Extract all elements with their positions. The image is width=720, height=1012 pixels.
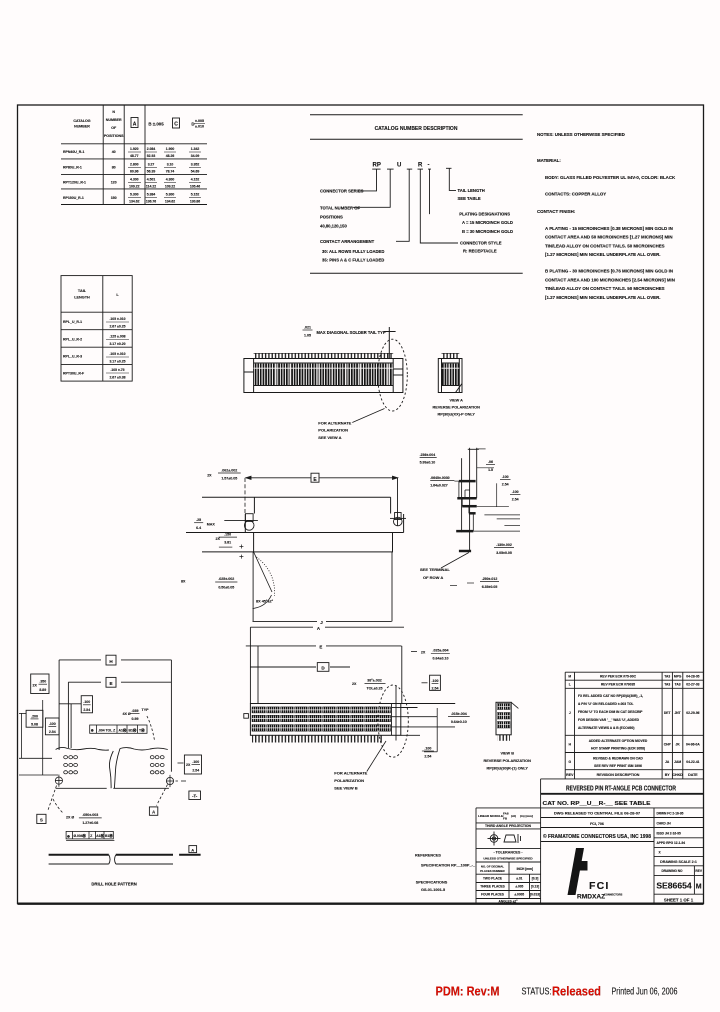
svg-text:0.50±0.05: 0.50±0.05	[218, 585, 234, 589]
dim lines above	[246, 627, 404, 703]
svg-text:[1.27 MICRONS] MIN NICKEL UNDE: [1.27 MICRONS] MIN NICKEL UNDERPLATE ALL…	[545, 295, 660, 300]
svg-text:SEE VIEW A: SEE VIEW A	[318, 435, 341, 440]
svg-text:2X: 2X	[215, 537, 220, 541]
svg-text:2.54: 2.54	[424, 754, 431, 758]
vertical extension lines	[59, 660, 171, 772]
svg-text:CONTACT AREA AND 50 MICROINCHE: CONTACT AREA AND 50 MICROINCHES [1.27 MI…	[545, 235, 673, 240]
svg-text:RP(30)U(30)R-(1) ONLY: RP(30)U(30)R-(1) ONLY	[486, 767, 528, 771]
svg-text:VIEW A: VIEW A	[450, 398, 464, 402]
svg-text:M: M	[696, 884, 702, 891]
svg-text:Printed Jun 06, 2006: Printed Jun 06, 2006	[612, 987, 678, 998]
svg-text:LENGTH: LENGTH	[74, 296, 90, 300]
svg-text:8X 45°±2°: 8X 45°±2°	[256, 600, 274, 604]
svg-text:40,80,120,150: 40,80,120,150	[320, 223, 347, 228]
svg-text:JK: JK	[675, 743, 680, 747]
svg-text:CHKD: CHKD	[672, 773, 683, 777]
svg-text:±.005: ±.005	[195, 119, 204, 123]
border frame	[18, 105, 704, 904]
svg-text:.236±.004: .236±.004	[420, 453, 436, 457]
svg-text:4.300: 4.300	[130, 178, 139, 182]
body outline	[186, 497, 404, 552]
svg-text:38°±.032: 38°±.032	[367, 679, 381, 683]
svg-text:1.5: 1.5	[488, 468, 493, 472]
svg-text:.039: .039	[132, 709, 139, 713]
svg-text:J: J	[569, 711, 571, 715]
view: recommended pcb layout	[19, 655, 202, 840]
datum target left	[55, 775, 62, 787]
svg-text:[1.27 MICRONS] MIN NICKEL UNDE: [1.27 MICRONS] MIN NICKEL UNDERPLATE ALL…	[545, 252, 660, 257]
svg-text:SEE REV REF PRINT ISM 1996: SEE REV REF PRINT ISM 1996	[594, 764, 642, 768]
labels left	[320, 188, 384, 262]
svg-text:FOR ALTERNATE: FOR ALTERNATE	[318, 420, 351, 425]
svg-text:NO. OF DECIMAL: NO. OF DECIMAL	[481, 864, 504, 868]
svg-text:2.084: 2.084	[147, 147, 156, 151]
diagram: catalog number description	[310, 115, 523, 274]
svg-text:[0.013]: [0.013]	[530, 893, 540, 897]
svg-text:ALTERNATE VIEWS A & B (ECO: ALTERNATE VIEWS A & B (ECO#50)	[578, 726, 634, 730]
svg-text:E: E	[109, 681, 112, 686]
dim label 2X post dia	[207, 468, 237, 480]
svg-text:RP: RP	[373, 163, 381, 169]
svg-text:TA3: TA3	[664, 683, 670, 687]
svg-text:A: A	[191, 847, 194, 852]
svg-text:FX REL ADDED CAT NO RP(30)U(30: FX REL ADDED CAT NO RP(30)U(30R)_-1,	[578, 694, 643, 698]
leader SEE TERMINAL	[441, 553, 469, 569]
chamfer leader and angle	[253, 552, 275, 609]
svg-text:CONNECTOR STYLE: CONNECTOR STYLE	[460, 240, 502, 245]
view B label	[483, 752, 531, 771]
svg-text:0.99: 0.99	[132, 717, 139, 721]
svg-text:S: S	[40, 818, 43, 823]
svg-text:40: 40	[112, 150, 116, 154]
svg-text:3.10: 3.10	[167, 163, 174, 167]
svg-text:JA: JA	[665, 760, 670, 764]
.100 lower right	[424, 708, 437, 752]
svg-text:⊕: ⊕	[67, 834, 70, 838]
svg-text:ISSD JH 2-16-95: ISSD JH 2-16-95	[657, 831, 681, 835]
svg-text:1.900: 1.900	[166, 147, 175, 151]
svg-text:FCI: FCI	[589, 880, 610, 892]
svg-text:RP150U_R-1: RP150U_R-1	[63, 196, 84, 200]
title block	[415, 672, 703, 903]
svg-text:THIRD ANGLE PROJECTION: THIRD ANGLE PROJECTION	[485, 824, 532, 828]
table: tail length table	[61, 276, 132, 382]
svg-text:SHEET 1 OF 1: SHEET 1 OF 1	[664, 897, 694, 902]
svg-text:R: R	[418, 163, 423, 169]
svg-text:TAIL LENGTH: TAIL LENGTH	[458, 188, 485, 193]
tail fringe below	[252, 735, 383, 742]
view: connector front view with dimensions	[181, 468, 406, 625]
svg-text:.105 ±.010: .105 ±.010	[109, 317, 125, 321]
svg-text:4.152: 4.152	[191, 178, 200, 182]
svg-text:TYP: TYP	[142, 708, 150, 712]
svg-text:1.27±0.08: 1.27±0.08	[82, 821, 98, 825]
right side ext lines	[401, 704, 455, 736]
svg-text:.100: .100	[83, 700, 90, 704]
svg-text:.250±.012: .250±.012	[482, 577, 498, 581]
svg-text:30: ALL ROWS FULLY LOADED: 30: ALL ROWS FULLY LOADED	[322, 249, 384, 254]
svg-text:RP(30)U(XX)-P ONLY: RP(30)U(XX)-P ONLY	[438, 413, 476, 417]
svg-text:105.46: 105.46	[190, 185, 200, 189]
svg-text:U: U	[397, 163, 401, 169]
svg-text:N: N	[112, 110, 115, 114]
svg-text:6.35±0.05: 6.35±0.05	[482, 585, 498, 589]
pcb bottom line	[56, 787, 169, 789]
svg-text:CONNECTOR SERIES: CONNECTOR SERIES	[320, 188, 364, 193]
svg-text:HOT STAMP PRINTING (ECR 3058): HOT STAMP PRINTING (ECR 3058)	[591, 747, 645, 751]
svg-text:B ±.005: B ±.005	[148, 122, 164, 127]
svg-text:CONNECTORS: CONNECTORS	[604, 893, 623, 897]
small cross ticks	[239, 545, 243, 559]
svg-text:134.62: 134.62	[129, 200, 139, 204]
svg-text:LINEAR MODULE:: LINEAR MODULE:	[478, 814, 504, 818]
svg-text:C: C	[174, 122, 178, 128]
svg-text:.350: .350	[39, 679, 46, 683]
svg-text:8.89: 8.89	[39, 688, 46, 692]
svg-text:A = 15 MICROINCH GOLD: A = 15 MICROINCH GOLD	[462, 220, 513, 225]
svg-text:PDM: Rev:M: PDM: Rev:M	[436, 984, 500, 999]
svg-text:CONTACT ARRANGEMENT: CONTACT ARRANGEMENT	[320, 239, 375, 244]
svg-text:FCI, 706: FCI, 706	[590, 822, 604, 826]
table: catalog dimension table	[61, 105, 207, 205]
center column	[541, 808, 654, 904]
svg-text:2.54: 2.54	[432, 686, 439, 690]
boxed 2X .350	[31, 674, 49, 694]
datum target right	[166, 775, 186, 787]
svg-text:MAX DIAGONAL SOLDER TAIL TYP: MAX DIAGONAL SOLDER TAIL TYP	[317, 330, 386, 335]
svg-text:MATERIAL:: MATERIAL:	[537, 158, 561, 163]
right boxed 2X .100	[178, 762, 184, 764]
svg-text:POLARIZATION: POLARIZATION	[334, 778, 364, 783]
svg-text:5.99±0.10: 5.99±0.10	[420, 461, 436, 465]
svg-text:CATALOG NUMBER DESCRIPTION: CATALOG NUMBER DESCRIPTION	[375, 126, 458, 132]
svg-text:.100: .100	[502, 475, 509, 479]
left boxed dims	[26, 710, 43, 727]
svg-text:SEE TERMINAL: SEE TERMINAL	[420, 567, 450, 572]
svg-text:109.22: 109.22	[129, 185, 139, 189]
svg-text:.105 ±.75: .105 ±.75	[110, 368, 124, 372]
pcb wavy top edge	[56, 747, 168, 788]
polarization post right	[390, 478, 406, 526]
svg-text:REVISION DESCRIPTION: REVISION DESCRIPTION	[597, 773, 640, 777]
svg-text:SPECIFICATION RP__100P_-_: SPECIFICATION RP__100P_-_	[421, 863, 476, 867]
dim E line	[246, 473, 398, 482]
dashed ellipse	[378, 685, 408, 757]
svg-text:DWG RELEASED TO CENTRAL FILE 0: DWG RELEASED TO CENTRAL FILE 06-28-07	[554, 811, 641, 816]
svg-text:120: 120	[111, 181, 117, 185]
notes text block	[537, 132, 676, 300]
svg-text:REVERSE POLARIZATION: REVERSE POLARIZATION	[432, 406, 480, 410]
svg-text:114.22: 114.22	[146, 185, 156, 189]
dashed centerline to post	[244, 478, 246, 514]
svg-text:5.08: 5.08	[31, 722, 38, 726]
pin tick fringe on top	[254, 353, 394, 359]
svg-text:REV PER ECR #75-90C: REV PER ECR #75-90C	[600, 675, 637, 679]
svg-text:1.64±0.027: 1.64±0.027	[430, 484, 448, 488]
view B small body	[496, 702, 511, 735]
svg-text:2.54: 2.54	[192, 768, 199, 772]
datum box A	[149, 807, 157, 815]
svg-text:[0.3]: [0.3]	[532, 877, 539, 881]
svg-text:© FRAMATOME CONNECTORS USA, IN: © FRAMATOME CONNECTORS USA, INC 1998	[543, 833, 651, 840]
svg-text:4.501: 4.501	[147, 178, 156, 182]
svg-text:CHP: CHP	[664, 743, 672, 747]
view A small body	[438, 359, 462, 393]
svg-text:TIN/LEAD ALLOY ON CONTACT TAIL: TIN/LEAD ALLOY ON CONTACT TAILS. 50 MICR…	[545, 243, 665, 248]
svg-text:150: 150	[111, 196, 117, 200]
svg-text:2X: 2X	[352, 682, 357, 686]
view: connector top view	[244, 326, 480, 440]
svg-text:04-96-0A: 04-96-0A	[686, 743, 700, 747]
svg-text:±.005: ±.005	[515, 885, 523, 889]
svg-text:.025±.002: .025±.002	[218, 577, 234, 581]
references text	[415, 854, 476, 892]
drill holes left group	[64, 756, 78, 774]
svg-text:[0.13]: [0.13]	[531, 885, 539, 889]
svg-text:2X Ø: 2X Ø	[66, 815, 74, 819]
svg-text:56.39: 56.39	[147, 170, 156, 174]
svg-text:3.17 ±0.20: 3.17 ±0.20	[109, 342, 125, 346]
dim H line	[59, 659, 171, 661]
svg-text:02-29-96: 02-29-96	[686, 711, 699, 715]
svg-text:DRILL HOLE PATTERN: DRILL HOLE PATTERN	[91, 882, 136, 887]
svg-text:.100: .100	[192, 760, 199, 764]
svg-text:-T-: -T-	[192, 794, 198, 799]
svg-text:B1Ⓜ: B1Ⓜ	[105, 833, 113, 838]
svg-text:TOTAL NUMBER OF: TOTAL NUMBER OF	[320, 206, 360, 211]
svg-text:.025±.004: .025±.004	[433, 649, 449, 653]
svg-text:(in) [mm]: (in) [mm]	[520, 814, 533, 818]
svg-text:DATE: DATE	[688, 773, 698, 777]
svg-text:FROM 'U' TO EACH DIM IN CAT DE: FROM 'U' TO EACH DIM IN CAT DESCRIP	[578, 710, 643, 714]
svg-text:A1Ⓜ: A1Ⓜ	[96, 833, 104, 838]
svg-text:5.384: 5.384	[147, 193, 156, 197]
svg-text:B = 30 MICROINCH GOLD: B = 30 MICROINCH GOLD	[462, 229, 513, 234]
projection symbol	[488, 832, 521, 846]
revision table grid	[565, 672, 703, 779]
svg-text:2.67 ±0.25: 2.67 ±0.25	[109, 325, 125, 329]
svg-text:.125 ±.008: .125 ±.008	[109, 335, 125, 339]
datum box T	[189, 791, 201, 800]
gdt frame bottom	[66, 831, 113, 839]
zigzag steps	[459, 481, 473, 531]
svg-text:APPD RPG 12-1-94: APPD RPG 12-1-94	[657, 841, 686, 845]
svg-text:CHKD JH: CHKD JH	[657, 821, 672, 825]
boxed .100	[422, 682, 428, 684]
view: connector bottom view	[244, 626, 531, 791]
alternate polarization label	[334, 770, 367, 790]
dim leader to tail	[384, 327, 396, 359]
svg-text:RP80U_R-1: RP80U_R-1	[63, 166, 82, 170]
datum box S	[37, 814, 46, 823]
alternate polarization label	[318, 420, 351, 439]
svg-text:134.62: 134.62	[165, 200, 175, 204]
svg-text:GS-01-1001-5: GS-01-1001-5	[421, 888, 445, 892]
labels right	[458, 188, 514, 253]
svg-text:2.67 ±0.38: 2.67 ±0.38	[109, 376, 125, 380]
svg-text:RPL_U_R-1: RPL_U_R-1	[63, 320, 82, 324]
svg-text:±.0005: ±.0005	[514, 893, 524, 897]
svg-text:Ø.004Ⓜ: Ø.004Ⓜ	[74, 833, 87, 838]
svg-text:TIN/LEAD ALLOY ON CONTACT TAIL: TIN/LEAD ALLOY ON CONTACT TAILS. 50 MICR…	[545, 286, 665, 291]
dashed leaders to datum boxes	[48, 785, 168, 814]
svg-text:.062±.002: .062±.002	[221, 468, 237, 472]
svg-text:RPN40U_R-1: RPN40U_R-1	[63, 150, 84, 154]
svg-text:J: J	[320, 620, 323, 625]
svg-text:80: 80	[112, 166, 116, 170]
svg-text:.015±.004: .015±.004	[451, 712, 467, 716]
svg-text:R: RECEPTACLE: R: RECEPTACLE	[463, 248, 497, 253]
svg-text:NUMBER: NUMBER	[74, 125, 90, 129]
svg-text:DET: DET	[664, 711, 671, 715]
svg-text:⊕: ⊕	[91, 729, 94, 733]
svg-text:CAT NO. RP__U__R-__ SEE TABLE: CAT NO. RP__U__R-__ SEE TABLE	[543, 801, 651, 807]
svg-text:L: L	[569, 683, 571, 687]
contact strips	[252, 707, 391, 731]
FCI logo	[568, 848, 588, 895]
svg-text:NOTES: UNLESS OTHERWISE SPECIF: NOTES: UNLESS OTHERWISE SPECIFIED	[537, 132, 625, 137]
svg-text:POLARIZATION: POLARIZATION	[318, 428, 348, 433]
svg-text:3.05±0.05: 3.05±0.05	[496, 551, 512, 555]
svg-text:34.09: 34.09	[191, 154, 200, 158]
svg-text:UNLESS OTHERWISE SPECIFIED: UNLESS OTHERWISE SPECIFIED	[483, 856, 533, 860]
svg-text:MPG: MPG	[674, 675, 682, 679]
svg-text:PLATING DESIGNATIONS: PLATING DESIGNATIONS	[459, 212, 510, 217]
svg-text:CATALOG: CATALOG	[73, 119, 90, 123]
svg-text:DRWN FC 2-16-95: DRWN FC 2-16-95	[657, 812, 684, 816]
svg-text:60.96: 60.96	[130, 170, 139, 174]
svg-text:RPL_U_R-2: RPL_U_R-2	[63, 338, 82, 342]
svg-text:109.22: 109.22	[165, 185, 175, 189]
part number tokens	[373, 163, 430, 169]
svg-text:STATUS:: STATUS:	[522, 987, 552, 998]
svg-text:PLACES NUMBER: PLACES NUMBER	[480, 869, 504, 873]
svg-text:MAX: MAX	[207, 522, 216, 526]
svg-text:JNT: JNT	[674, 711, 680, 715]
svg-text:NUMBER: NUMBER	[106, 118, 122, 122]
svg-text:TA3: TA3	[664, 675, 670, 679]
svg-text:±.01: ±.01	[516, 877, 522, 881]
svg-text:5.300: 5.300	[130, 193, 139, 197]
svg-text:TWO PLACE: TWO PLACE	[483, 877, 502, 881]
svg-text:& P/N 'U' ON RELOADED ±.003 TO: & P/N 'U' ON RELOADED ±.003 TOL	[578, 702, 634, 706]
svg-text:0.64±0.10: 0.64±0.10	[451, 720, 467, 724]
right side dims	[450, 449, 520, 586]
svg-text:.200: .200	[31, 714, 38, 718]
svg-text:78.74: 78.74	[166, 170, 175, 174]
svg-text:ANGLES ±2°: ANGLES ±2°	[499, 900, 519, 904]
svg-text:.105 ±.010: .105 ±.010	[109, 352, 125, 356]
svg-text:1.57±0.05: 1.57±0.05	[221, 477, 237, 481]
svg-text:TAIL: TAIL	[78, 289, 87, 293]
svg-text:1.05: 1.05	[304, 333, 311, 337]
svg-text:8X: 8X	[181, 580, 186, 584]
svg-text:52.93: 52.93	[147, 154, 156, 158]
svg-text:FOUR PLACES: FOUR PLACES	[481, 893, 504, 897]
svg-text:FA8: FA8	[503, 812, 509, 816]
svg-text:FOR DESIGN VAR '__' WAS 'U', A: FOR DESIGN VAR '__' WAS 'U', ADDED	[578, 718, 640, 722]
svg-text:.100: .100	[512, 490, 519, 494]
boxed .100 top	[81, 696, 92, 713]
svg-text:OF ROW A: OF ROW A	[423, 575, 443, 580]
svg-text:1.342: 1.342	[191, 147, 200, 151]
gdt frame top	[90, 725, 147, 733]
centerlines	[462, 448, 479, 551]
dashed polarization ellipse	[378, 339, 408, 411]
svg-text:5.152: 5.152	[191, 193, 200, 197]
svg-text:0.64±0.10: 0.64±0.10	[433, 657, 449, 661]
svg-text:2.800: 2.800	[130, 163, 139, 167]
svg-text:JAM: JAM	[674, 760, 681, 764]
svg-text:RPT120U_R-1: RPT120U_R-1	[63, 181, 86, 185]
svg-text:2.54: 2.54	[512, 498, 519, 502]
body	[250, 704, 400, 736]
svg-text:.06: .06	[488, 460, 493, 464]
body outline	[244, 359, 403, 393]
svg-text:.050±.003: .050±.003	[82, 813, 98, 817]
svg-text:.150: .150	[224, 532, 231, 536]
svg-text:04-22-41: 04-22-41	[686, 760, 699, 764]
svg-text:G: G	[569, 760, 572, 764]
svg-text:2X: 2X	[186, 763, 191, 767]
svg-text:5.300: 5.300	[166, 193, 175, 197]
svg-text:POSITIONS: POSITIONS	[104, 134, 124, 138]
svg-text:SEE TABLE: SEE TABLE	[458, 196, 481, 201]
svg-text:2X: 2X	[33, 683, 38, 687]
drill holes right group	[150, 756, 164, 774]
svg-text:3.352: 3.352	[191, 163, 200, 167]
svg-text:INCH [mm]: INCH [mm]	[517, 867, 533, 871]
title bar	[541, 779, 703, 904]
svg-text:CONTACT AREA AND 100 MICROINCH: CONTACT AREA AND 100 MICROINCHES [2.54 M…	[545, 277, 675, 282]
svg-text:REVERSED PIN RT-ANGLE PCB CONN: REVERSED PIN RT-ANGLE PCB CONNECTOR	[566, 786, 676, 793]
svg-text:REV: REV	[695, 869, 702, 873]
svg-text:Z: Z	[90, 834, 92, 838]
2X tail dim label	[411, 651, 417, 653]
svg-text:4X Ø: 4X Ø	[123, 712, 131, 716]
svg-text:02-27-03: 02-27-03	[686, 683, 699, 687]
contact hatch area	[254, 364, 394, 385]
tolerance block	[476, 808, 541, 904]
view: drill hole pattern	[49, 846, 201, 887]
svg-text:.100: .100	[424, 746, 431, 750]
svg-text:DRAWING NO: DRAWING NO	[661, 869, 683, 873]
svg-text:B PLATING - 30 MICROINCHES [0.: B PLATING - 30 MICROINCHES [0.76 MICRONS…	[545, 269, 673, 274]
view A label	[432, 398, 480, 416]
svg-text:2.54: 2.54	[502, 483, 509, 487]
svg-text:.130±.002: .130±.002	[496, 543, 512, 547]
svg-text:REVERSE POLARIZATION: REVERSE POLARIZATION	[483, 759, 531, 763]
svg-text:.021: .021	[304, 326, 311, 330]
svg-text:2.54: 2.54	[83, 708, 90, 712]
svg-text:35: PINS A & C FULLY LOADED: 35: PINS A & C FULLY LOADED	[322, 257, 384, 262]
footer status line	[436, 984, 678, 999]
svg-text:.004 TOL Z: .004 TOL Z	[98, 728, 115, 732]
svg-text:Released: Released	[552, 984, 601, 999]
svg-text:130.86: 130.86	[190, 200, 200, 204]
svg-text:.0645±.0030: .0645±.0030	[430, 476, 449, 480]
svg-text:±.010: ±.010	[195, 125, 204, 129]
svg-text:VIEW B: VIEW B	[500, 752, 514, 756]
svg-text:BY: BY	[665, 773, 671, 777]
svg-text:SE86654: SE86654	[656, 881, 692, 891]
svg-text:136.76: 136.76	[146, 200, 156, 204]
svg-text:REFERENCES: REFERENCES	[415, 854, 441, 858]
svg-text:48.26: 48.26	[166, 154, 175, 158]
svg-text:CONTACT FINISH:: CONTACT FINISH:	[537, 209, 576, 214]
svg-text:SPECIFICATIONS: SPECIFICATIONS	[416, 880, 448, 884]
svg-text:RPL_U_R-3: RPL_U_R-3	[63, 355, 82, 359]
